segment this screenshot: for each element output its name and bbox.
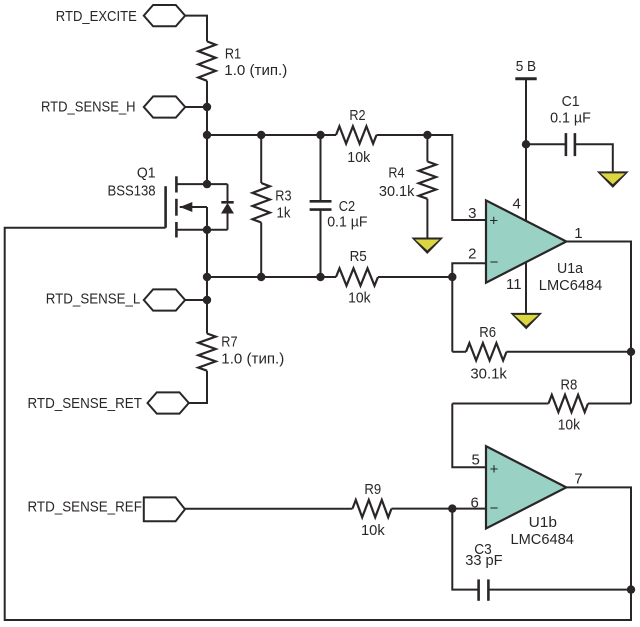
- net connector RTD_SENSE_REF: [144, 497, 185, 521]
- svg-text:RTD_SENSE_RET: RTD_SENSE_RET: [28, 395, 142, 412]
- wire: SENSE_H stub: [185, 106, 207, 108]
- net connector RTD_SENSE_H: [144, 96, 185, 117]
- svg-text:R1: R1: [225, 46, 241, 63]
- svg-text:30.1k: 30.1k: [379, 183, 415, 200]
- capacitor C3: [477, 579, 480, 600]
- svg-text:U1a: U1a: [557, 260, 584, 277]
- svg-text:5: 5: [472, 451, 480, 468]
- svg-text:1.0 (тип.): 1.0 (тип.): [224, 62, 287, 79]
- svg-text:BSS138: BSS138: [108, 183, 156, 200]
- wire: branch down to C3: [452, 509, 478, 590]
- svg-text:R8: R8: [561, 377, 578, 394]
- svg-text:2: 2: [468, 246, 476, 263]
- svg-text:R3: R3: [275, 188, 291, 205]
- wire: pin 7 output down right rail: [566, 487, 631, 589]
- node: rail/lower bus: [203, 273, 211, 281]
- svg-text:C2: C2: [339, 198, 355, 215]
- net connector RTD_SENSE_L: [144, 289, 185, 310]
- resistor R3 with leads: [260, 135, 262, 183]
- wire: pin 2 to R6 branch: [452, 263, 486, 352]
- node: drain junction: [203, 180, 211, 188]
- op-amp U1b: [486, 446, 566, 528]
- svg-text:R4: R4: [388, 164, 404, 181]
- svg-text:R5: R5: [350, 248, 367, 265]
- ground below C1: [597, 171, 629, 188]
- net connector RTD_SENSE_RET: [148, 392, 189, 413]
- svg-text:7: 7: [574, 471, 582, 488]
- svg-text:LMC6484: LMC6484: [539, 277, 603, 294]
- svg-text:R6: R6: [479, 324, 496, 341]
- resistor R5: [336, 268, 378, 285]
- wire: SENSE_L stub: [185, 299, 207, 301]
- body diode of Q1: [227, 184, 229, 202]
- ground below pin 11: [510, 313, 542, 330]
- wire: RTD_EXCITE to R1: [185, 16, 207, 42]
- wire: R1 to Q1 drain rail: [206, 81, 208, 184]
- svg-text:10k: 10k: [361, 522, 385, 539]
- resistor R6 with leads: [452, 351, 466, 353]
- svg-text:RTD_SENSE_L: RTD_SENSE_L: [46, 291, 141, 308]
- node: SENSE_H junction: [203, 103, 211, 111]
- svg-text:3: 3: [468, 205, 476, 222]
- node: C2 top: [316, 131, 324, 139]
- svg-text:R2: R2: [349, 107, 365, 124]
- wire: pin 11 to ground: [525, 262, 527, 313]
- svg-text:U1b: U1b: [529, 514, 557, 531]
- capacitor C1: [526, 143, 566, 145]
- wire: R8 branch to pin 5: [452, 404, 486, 468]
- net connector RTD_EXCITE: [144, 5, 185, 26]
- node: R3 top: [257, 131, 265, 139]
- svg-text:30.1k: 30.1k: [470, 366, 507, 383]
- svg-text:R7: R7: [221, 334, 237, 351]
- svg-text:1: 1: [574, 225, 582, 242]
- node: pin 6 / C3 branch: [448, 504, 456, 512]
- resistor R8 with leads: [452, 403, 548, 405]
- wire: lower bus left of R5: [207, 276, 336, 278]
- svg-text:−: −: [490, 500, 499, 517]
- node: R3 bottom: [257, 273, 265, 281]
- resistor R7: [198, 334, 215, 371]
- svg-text:RTD_SENSE_REF: RTD_SENSE_REF: [28, 499, 142, 516]
- wire: R7 to RET: [189, 371, 207, 403]
- node: C3/feedback junction: [627, 585, 635, 593]
- svg-text:1k: 1k: [277, 205, 291, 222]
- node: rail/top bus: [203, 131, 211, 139]
- svg-text:Q1: Q1: [137, 164, 156, 181]
- resistor R9: [353, 500, 392, 517]
- wire: REF to R9: [185, 508, 353, 510]
- wire: top bus right of R2 to op-amp pin 3: [377, 135, 487, 220]
- svg-text:R9: R9: [364, 481, 381, 498]
- node: SENSE_L junction: [203, 296, 211, 304]
- node: C2 bottom: [316, 273, 324, 281]
- wire: top bus left of R2: [207, 134, 336, 136]
- svg-text:5 В: 5 В: [516, 58, 536, 75]
- svg-text:0.1 µF: 0.1 µF: [327, 214, 367, 231]
- transistor Q1 BSS138: [164, 186, 167, 228]
- wire: 5V rail to pin 4: [525, 79, 527, 221]
- wire: feedback bottom/left to Q1 gate: [5, 228, 631, 620]
- wire: C3 right to rail: [488, 589, 631, 591]
- svg-text:10k: 10k: [558, 416, 581, 433]
- svg-text:+: +: [489, 213, 498, 230]
- resistor R4 with leads: [426, 135, 428, 162]
- svg-text:10k: 10k: [347, 149, 370, 166]
- svg-text:10k: 10k: [348, 289, 371, 306]
- wire: pin 1 output down right rail to R8: [566, 242, 631, 404]
- svg-text:0.1 µF: 0.1 µF: [550, 109, 591, 126]
- wire: R9 to pin 6: [392, 508, 487, 510]
- resistor R1: [198, 41, 215, 80]
- node: R5 right / pin2 branch: [448, 273, 456, 281]
- svg-text:RTD_EXCITE: RTD_EXCITE: [56, 8, 137, 25]
- svg-text:LMC6484: LMC6484: [511, 531, 574, 548]
- node: C1 tap: [522, 140, 530, 148]
- wire: source rail down to R7: [206, 230, 208, 334]
- node: R6 right junction: [627, 348, 635, 356]
- svg-text:+: +: [490, 461, 499, 478]
- svg-text:C1: C1: [562, 93, 580, 110]
- node: R4 top: [423, 131, 431, 139]
- capacitor C2: [320, 135, 322, 201]
- svg-text:11: 11: [506, 276, 522, 293]
- svg-text:RTD_SENSE_H: RTD_SENSE_H: [41, 99, 136, 116]
- svg-text:4: 4: [513, 195, 521, 212]
- svg-text:1.0 (тип.): 1.0 (тип.): [221, 350, 284, 367]
- wire: lower bus right of R5: [378, 276, 452, 278]
- resistor R2: [336, 126, 377, 143]
- power symbol 5V: [515, 77, 536, 80]
- svg-text:33 pF: 33 pF: [465, 552, 502, 569]
- ground below R4: [411, 238, 443, 255]
- node: source junction: [203, 226, 211, 234]
- op-amp U1a: [486, 200, 566, 282]
- svg-text:−: −: [490, 254, 499, 271]
